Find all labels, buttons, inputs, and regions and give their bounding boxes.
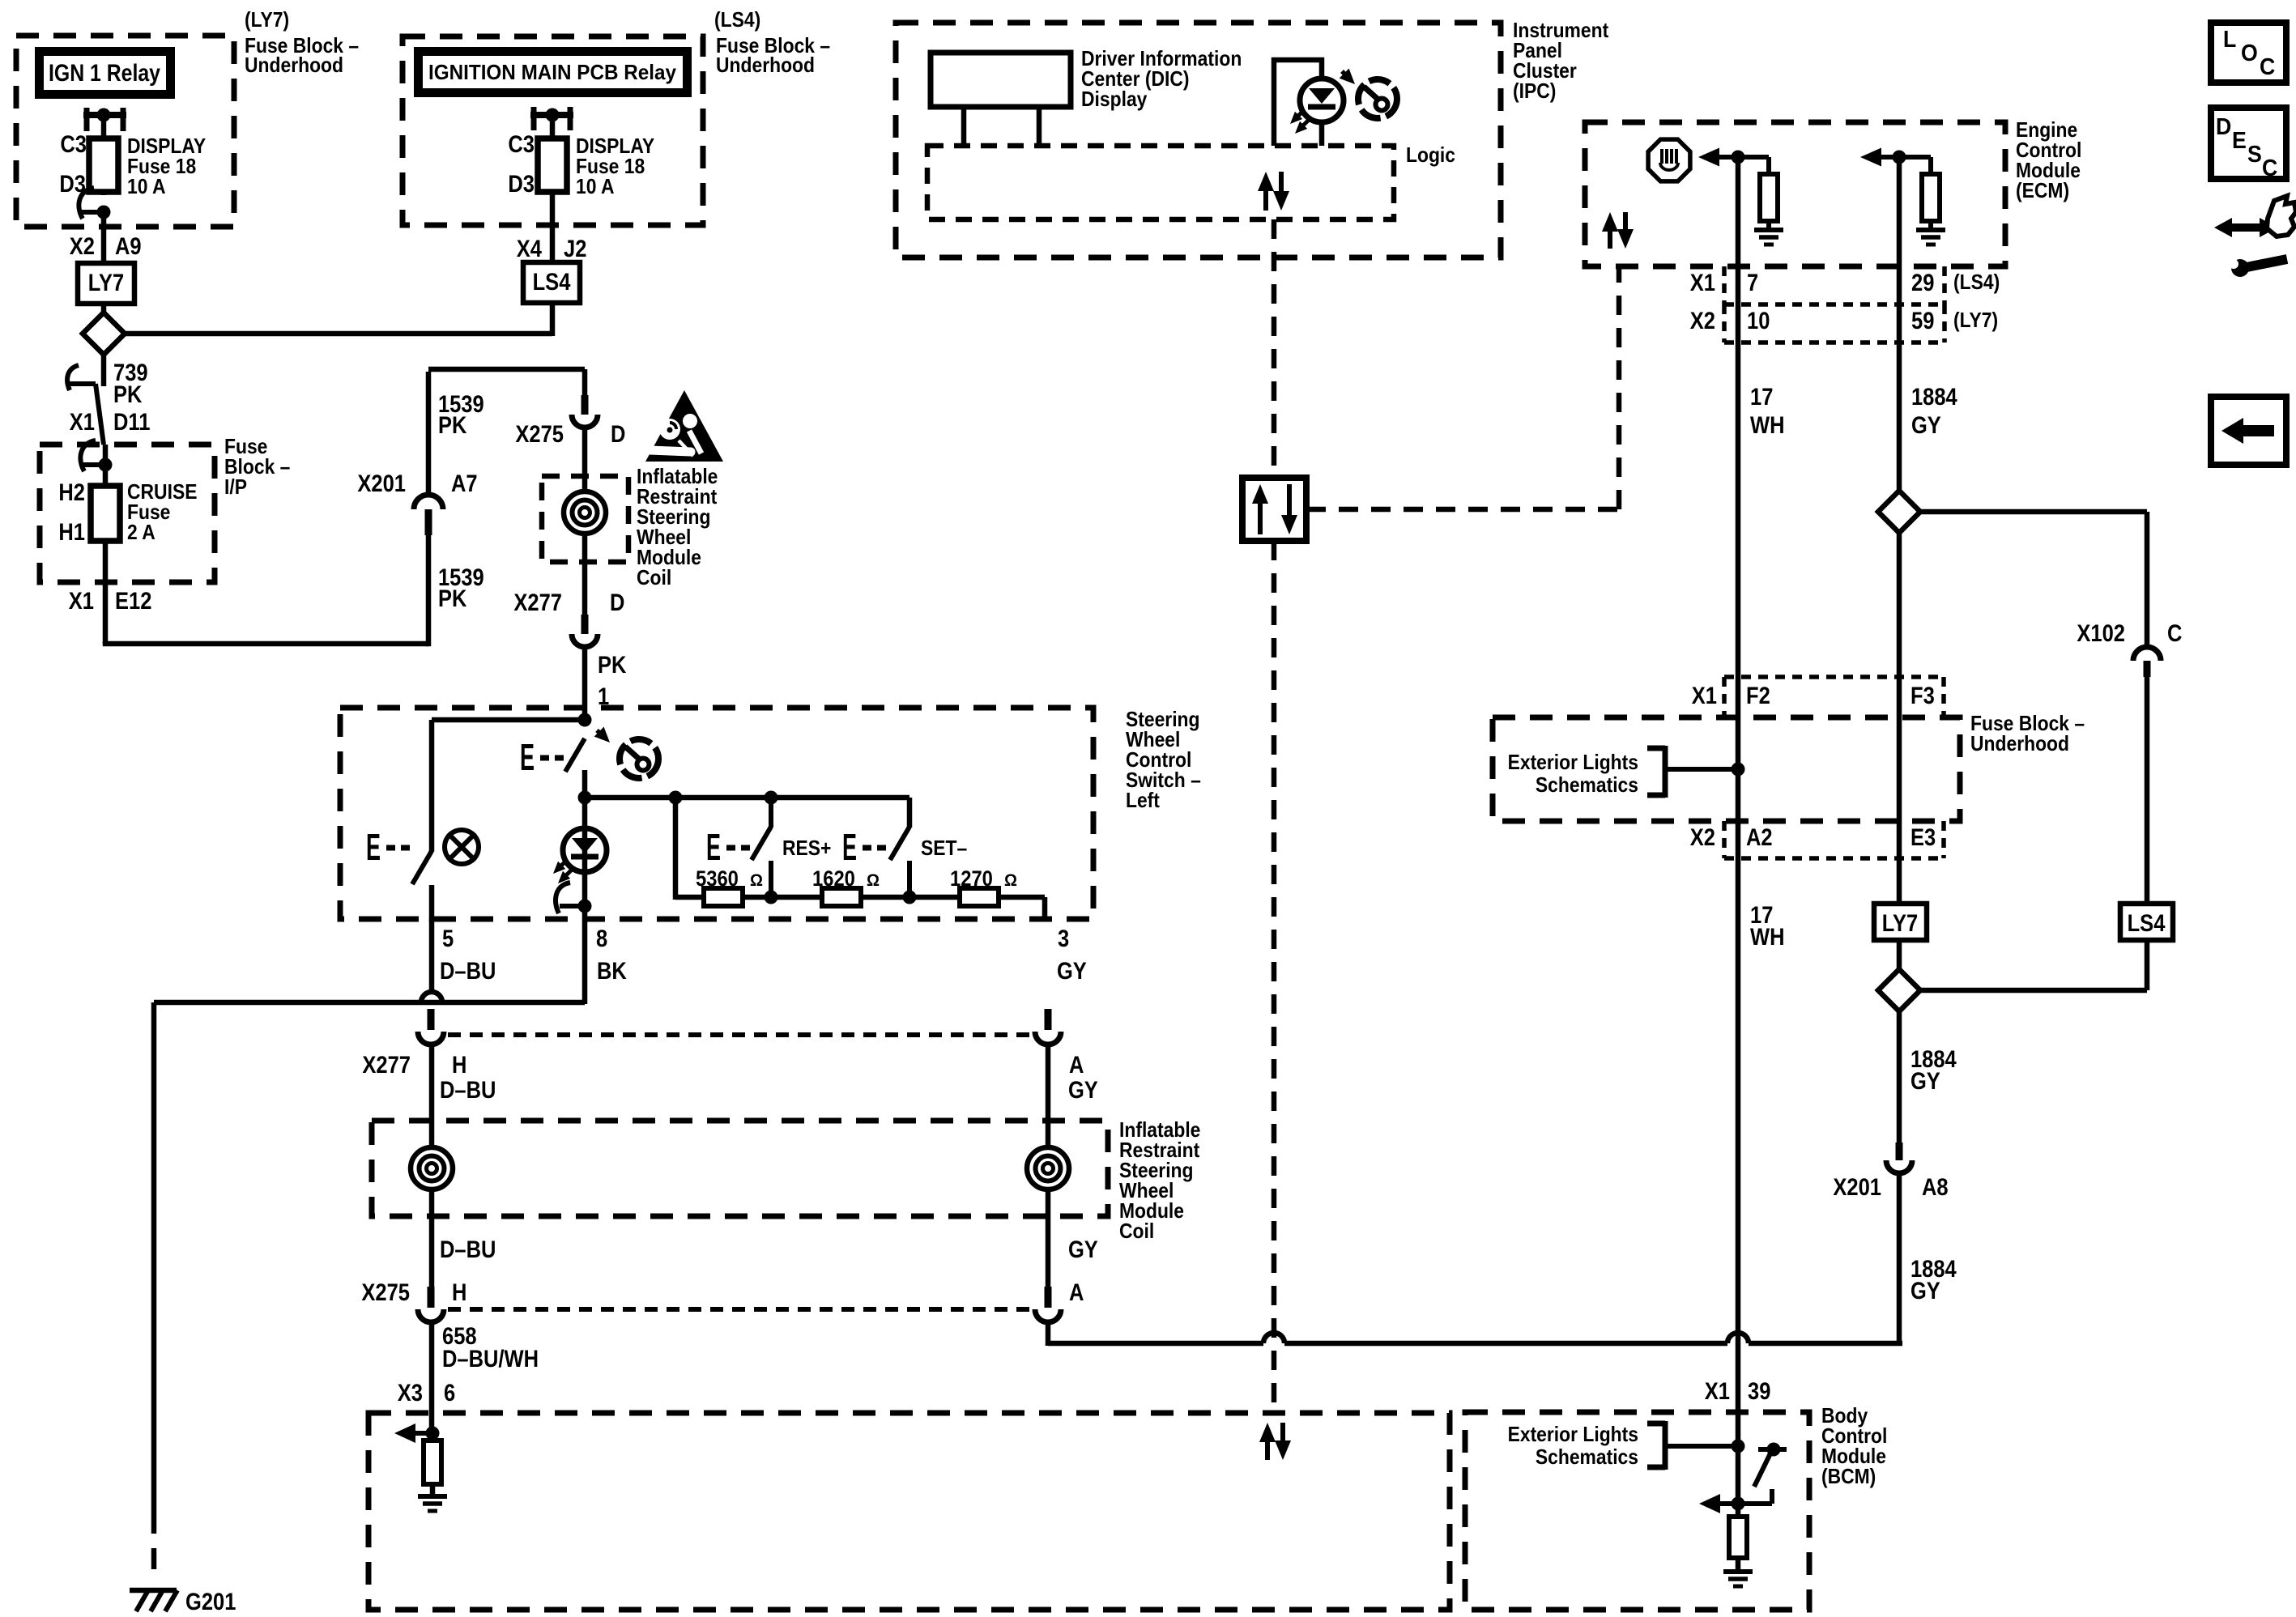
arrow 2 (ECM) (1860, 148, 1881, 167)
svg-text:(LS4): (LS4) (1953, 270, 2000, 294)
svg-text:X2: X2 (1690, 308, 1715, 334)
wire X275-D to coil (582, 428, 588, 496)
wire riser above X201 (426, 372, 432, 495)
svg-text:E: E (842, 826, 857, 868)
serial data up/down arrows (logic) (1263, 188, 1268, 211)
resistor chain bottom wire (675, 895, 1045, 900)
diagnostic hand/arrow icon (2224, 223, 2268, 232)
wire LY7 box to diamond (right) (1897, 940, 1902, 971)
ECM pull-up resistor 2 (1899, 155, 1931, 160)
splice diamond S1 (83, 313, 125, 355)
ground (ECM resistor 1) (1754, 228, 1783, 232)
svg-text:H: H (452, 1052, 466, 1079)
fuse DISPLAY Fuse 18 10 A (underhood) (101, 138, 107, 195)
splice diamond 1884 GY (1878, 491, 1920, 533)
ECM connector row divider (1724, 302, 1945, 307)
svg-text:X277: X277 (362, 1052, 411, 1079)
svg-text:J2: J2 (564, 236, 586, 262)
svg-text:5360: 5360 (696, 866, 739, 891)
junction dot exterior lights (BCM) (1732, 1440, 1745, 1453)
connector X275 D (581, 395, 589, 415)
svg-text:29: 29 (1911, 270, 1934, 296)
svg-text:E: E (520, 736, 535, 778)
svg-text:X1: X1 (1692, 683, 1717, 709)
cruise indicator LED (IPC) (1300, 79, 1344, 122)
svg-text:(LY7): (LY7) (245, 7, 289, 32)
svg-text:Schematics: Schematics (1536, 772, 1638, 797)
svg-text:LY7: LY7 (88, 270, 124, 296)
steering wheel control switch - left dashed box (340, 708, 1093, 919)
serial data up/down arrows (bottom box) (1265, 1439, 1270, 1460)
bracket exterior lights (fuse block) (1663, 746, 1668, 798)
exterior lights schematics dashed box (fuse block) (1493, 717, 1960, 821)
svg-text:Fuse Block –Underhood: Fuse Block –Underhood (716, 33, 830, 77)
relay IGNITION MAIN PCB Relay (414, 47, 692, 97)
wire branch 5360 drop (673, 798, 679, 900)
svg-text:H1: H1 (58, 519, 85, 546)
wire X275-A down to long run (1046, 1322, 1051, 1346)
logic dashed box (927, 146, 1394, 219)
svg-text:E3: E3 (1910, 824, 1936, 851)
svg-text:D: D (610, 589, 624, 616)
wire 1884 GY vertical (ECM to diamond) (1897, 157, 1902, 492)
svg-text:A2: A2 (1746, 824, 1773, 851)
speedometer gauge icon (switch) (620, 739, 658, 778)
fuse DISPLAY Fuse 18 10 A (LS4) (550, 138, 556, 225)
svg-text:A: A (1069, 1279, 1084, 1306)
junction node pin1 wire (578, 713, 592, 727)
hidden wire to ground (dashed) (151, 1513, 157, 1581)
breaker hook below LED (556, 883, 570, 913)
svg-text:C: C (2262, 155, 2277, 181)
svg-text:A8: A8 (1922, 1174, 1949, 1201)
clockspring coil (left) (411, 1147, 453, 1189)
svg-text:X275: X275 (515, 421, 564, 448)
wire through CRUISE fuse (103, 445, 109, 487)
svg-text:D: D (2216, 114, 2231, 140)
wire D3 to LY7 code box (101, 212, 107, 265)
inflatable restraint steering wheel module coil (lower) dashed box (372, 1121, 1108, 1216)
svg-text:X277: X277 (513, 589, 562, 616)
svg-text:GY: GY (1057, 958, 1087, 985)
wire 17WH junction to switch node (1736, 1446, 1741, 1504)
ECM connector row X1 7 29 (LS4) (1722, 266, 1727, 304)
svg-text:(LS4): (LS4) (714, 7, 760, 32)
junction dot 1884 GY at ECM (1893, 151, 1906, 164)
arrow left (658 continues) (413, 1431, 432, 1436)
svg-text:X1: X1 (1705, 1378, 1730, 1405)
wire relay to fuse C3 (101, 115, 107, 138)
svg-text:LS4: LS4 (533, 269, 571, 296)
svg-text:E: E (2232, 128, 2247, 154)
svg-text:GY: GY (1068, 1077, 1098, 1104)
arrow left (BCM) (1710, 1501, 1772, 1506)
svg-text:GY: GY (1068, 1236, 1098, 1263)
serial data box (1242, 478, 1306, 541)
wire diamond down 1884 GY (1897, 1011, 1902, 1143)
resistor 5360 ohm (704, 888, 743, 906)
connector X277 H (428, 1009, 435, 1030)
instrument panel cluster dashed box (896, 23, 1501, 257)
wire X277-H to coil (429, 1045, 435, 1292)
wire D3 to LS4 code box (550, 225, 556, 265)
wire diamond to X102 branch (1920, 509, 2147, 515)
svg-text:IGNITION MAIN PCB Relay: IGNITION MAIN PCB Relay (428, 60, 676, 84)
bracket exterior lights (BCM) (1663, 1421, 1668, 1470)
svg-text:Fuse Block –Underhood: Fuse Block –Underhood (245, 33, 359, 77)
svg-text:D11: D11 (113, 409, 150, 436)
svg-text:3: 3 (1058, 926, 1069, 952)
stop/hand icon (ECM) (1648, 139, 1690, 181)
svg-text:E: E (706, 826, 721, 868)
connector X277 D (581, 615, 589, 634)
svg-text:10: 10 (1747, 308, 1770, 334)
relay contact terminal (IGN 1) (84, 108, 90, 131)
svg-text:H2: H2 (58, 479, 85, 506)
connector X277 A (1045, 1009, 1052, 1030)
svg-text:Logic: Logic (1406, 143, 1455, 167)
junction dot 5360/1620 (765, 891, 778, 904)
svg-text:L: L (2223, 27, 2236, 53)
junction dot arrow (BCM) (1732, 1497, 1745, 1511)
svg-text:C3: C3 (508, 131, 535, 158)
svg-text:F3: F3 (1910, 683, 1935, 709)
wire to cruise LED (IPC) (1274, 60, 1322, 146)
fuse row X2 A2 E3 (1722, 821, 1727, 858)
back arrow navigation box (2211, 397, 2286, 465)
DESC navigation box (2211, 108, 2286, 179)
svg-text:X201: X201 (357, 470, 406, 497)
fuse block - I/P dashed box (40, 445, 215, 582)
junction dot branch RES (765, 791, 778, 805)
connector X275 A (1045, 1287, 1052, 1308)
switch RES+ (E) (769, 798, 773, 828)
svg-text:Ω: Ω (867, 871, 880, 890)
wire 1884 GY diamond to fuse rows (1897, 533, 1902, 905)
relay IGN 1 Relay (35, 47, 175, 99)
svg-text:PK: PK (598, 652, 627, 679)
svg-text:BK: BK (597, 958, 627, 985)
svg-text:X1: X1 (1690, 270, 1715, 296)
hop over 17 WH wire (1727, 1333, 1749, 1343)
ECM pull-up resistor 1 (1738, 155, 1769, 160)
svg-text:X1: X1 (69, 588, 94, 615)
wire resistor feed line (585, 795, 909, 801)
fuse block - underhood (LY7) dashed box (16, 36, 234, 227)
ground (BCM) (1723, 1569, 1753, 1574)
BCM resistor (1736, 1504, 1741, 1518)
speedometer gauge icon (IPC) (1358, 79, 1397, 118)
resistor 1270 ohm (960, 888, 999, 906)
svg-text:SET–: SET– (921, 836, 967, 860)
svg-text:1270: 1270 (950, 866, 993, 891)
svg-text:Fuse Block –Underhood: Fuse Block –Underhood (1970, 711, 2085, 755)
body control module dashed box (1465, 1412, 1809, 1610)
breaker hook at H2 (80, 440, 96, 471)
clockspring coil (upper) (564, 491, 606, 534)
junction dot 658 in bottom box (426, 1427, 440, 1440)
junction dot branch 5360 (669, 791, 683, 805)
svg-text:E: E (366, 826, 381, 868)
wire D-BU pin5 to hop (429, 919, 435, 993)
svg-text:Exterior Lights: Exterior Lights (1508, 1422, 1638, 1446)
junction dot 1620/1270 (903, 891, 917, 904)
wire X102 to LS4 code box (2145, 677, 2150, 905)
svg-text:E12: E12 (115, 588, 151, 615)
svg-text:Exterior Lights: Exterior Lights (1508, 750, 1638, 774)
svg-text:8: 8 (596, 926, 607, 952)
wrench icon (2247, 259, 2287, 267)
hop over IPC serial dashed line (1263, 1333, 1284, 1343)
long wire GY to BCM area (1048, 1341, 1263, 1347)
connector X275 H (428, 1287, 435, 1308)
junction dot 17 WH at ECM (1732, 151, 1745, 164)
X275 dashed connector row (448, 1307, 1033, 1312)
ECM connector row X2 10 59 (LY7) (1722, 304, 1727, 343)
connector hook X1-D11 (67, 365, 79, 390)
wire 658 D-BU/WH (429, 1322, 435, 1436)
DIC display symbol (931, 53, 1071, 107)
wire relay to fuse C3 (LS4) (550, 115, 556, 138)
svg-text:F2: F2 (1746, 683, 1770, 709)
wire to lamp-switch branch (432, 717, 587, 723)
svg-text:D3: D3 (508, 171, 535, 198)
bottom module dashed box (368, 1413, 1450, 1610)
dashed serial line to ECM (1306, 507, 1619, 513)
svg-text:X2: X2 (70, 233, 95, 260)
svg-text:5: 5 (442, 926, 454, 952)
wire X201-A8 down to corner (1897, 1173, 1902, 1346)
svg-text:D: D (611, 421, 625, 448)
connector X102 C (2133, 647, 2161, 661)
wire BK pin8 down and left to G201 (154, 1000, 585, 1006)
wire LS4 drop to junction (550, 298, 556, 336)
svg-text:Ω: Ω (750, 871, 763, 890)
svg-text:C: C (2260, 54, 2275, 80)
svg-text:X201: X201 (1833, 1174, 1881, 1201)
LOC navigation box (2211, 23, 2286, 83)
SRS warning triangle (645, 390, 723, 462)
svg-text:LS4: LS4 (2128, 910, 2166, 937)
svg-text:C3: C3 (60, 131, 87, 158)
svg-text:G201: G201 (185, 1589, 236, 1615)
svg-text:X3: X3 (398, 1380, 423, 1406)
ECM connector rows bottom (1724, 340, 1945, 345)
fuse row X1 F2 F3 (1724, 674, 1944, 679)
svg-text:39: 39 (1748, 1378, 1770, 1405)
connector X201 A7 (414, 495, 443, 509)
svg-text:X1: X1 (70, 409, 95, 436)
svg-text:O: O (2241, 40, 2258, 66)
svg-text:S: S (2247, 142, 2262, 168)
code box LS4 (right) (2120, 904, 2173, 940)
ground (bottom box) (418, 1494, 447, 1499)
wire diamond to LS4 branch (125, 331, 552, 337)
clockspring coil (right) (1027, 1147, 1069, 1189)
svg-text:X4: X4 (517, 236, 542, 262)
wire resistor to ground (bottom box) (430, 1484, 436, 1498)
wire X277-D into steering box (PK 1) (582, 647, 588, 722)
code box LS4 (left) (523, 262, 580, 303)
wire diamond to LS4 (right) (1920, 988, 2147, 994)
wire riser top corner to X275-D (428, 367, 585, 372)
svg-text:A: A (1069, 1052, 1084, 1079)
ground G201 (chassis) (130, 1588, 177, 1594)
svg-text:A7: A7 (451, 470, 478, 497)
svg-text:C: C (2167, 620, 2182, 647)
ground (ECM resistor 2) (1916, 228, 1945, 232)
wire coil to X277-D (582, 532, 588, 615)
svg-text:Schematics: Schematics (1536, 1445, 1638, 1469)
connector X201 A8 (1896, 1143, 1903, 1160)
svg-text:D–BU: D–BU (440, 1077, 496, 1104)
breaker hook at fuse D3 output (79, 188, 94, 219)
svg-text:Ω: Ω (1004, 871, 1017, 890)
wire E12 down and right to X201 riser (103, 641, 109, 646)
wire X277-A to coil (1046, 1045, 1051, 1292)
fuse block - underhood (LS4) dashed box (403, 36, 703, 225)
dashed serial line logic to connector box (1272, 219, 1277, 478)
svg-text:A9: A9 (115, 233, 142, 260)
svg-text:X275: X275 (361, 1279, 410, 1306)
svg-text:X2: X2 (1690, 824, 1715, 851)
svg-text:6: 6 (444, 1380, 455, 1406)
wire LY7 box to splice diamond (101, 304, 107, 316)
engine control module dashed box (1585, 122, 2005, 266)
BCM switch (1758, 1447, 1787, 1452)
svg-text:LY7: LY7 (1882, 910, 1918, 937)
svg-text:D–BU: D–BU (440, 958, 496, 985)
svg-text:(LY7): (LY7) (1953, 308, 1998, 332)
dashed serial line down to bottom box (1272, 541, 1277, 1413)
serial data up/down arrows (ECM) (1608, 228, 1612, 249)
splice diamond (right) (1878, 969, 1920, 1011)
inflatable restraint steering wheel module coil (upper) dashed box (542, 476, 628, 562)
code box LY7 (left) (78, 263, 134, 304)
LED indicator pin 8 (582, 798, 588, 1004)
arrow into stop icon (1698, 148, 1719, 167)
wire 17 WH vertical (1736, 157, 1741, 1446)
X277 dashed connector row (448, 1032, 1033, 1037)
svg-text:X102: X102 (2077, 620, 2125, 647)
svg-text:IGN 1 Relay: IGN 1 Relay (49, 60, 160, 87)
resistor 1620 ohm (822, 888, 861, 906)
resistor in bottom box (430, 1433, 436, 1443)
hop D-BU over BK wire (421, 992, 442, 1002)
svg-text:D–BU: D–BU (440, 1236, 496, 1263)
junction node resistor feed (578, 791, 592, 805)
lamp symbol (445, 830, 479, 864)
wire diamond down 739 PK (101, 355, 107, 386)
fuse CRUISE Fuse 2 A (91, 486, 120, 541)
svg-text:7: 7 (1747, 270, 1758, 296)
switch SET- (E) (890, 827, 909, 860)
svg-text:RES+: RES+ (782, 836, 831, 860)
svg-text:1620: 1620 (812, 866, 855, 891)
code box LY7 (right) (1874, 904, 1927, 940)
relay contact terminal (IGNITION MAIN) (531, 107, 537, 130)
svg-text:59: 59 (1911, 308, 1934, 334)
svg-text:H: H (452, 1279, 466, 1306)
